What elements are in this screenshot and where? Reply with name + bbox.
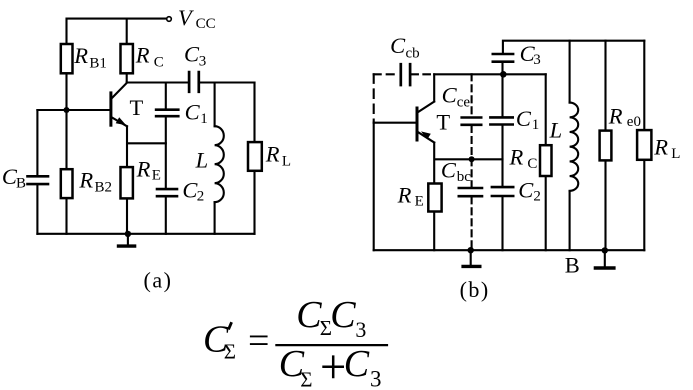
svg-text:1: 1: [200, 111, 208, 127]
svg-text:1: 1: [532, 117, 540, 133]
svg-text:bc: bc: [457, 169, 472, 185]
svg-text:L: L: [671, 146, 680, 162]
svg-text:3: 3: [199, 54, 207, 70]
svg-text:L: L: [195, 147, 209, 172]
svg-text:T: T: [130, 95, 144, 120]
svg-text:B: B: [565, 253, 580, 278]
svg-text:R: R: [397, 183, 412, 208]
svg-text:C: C: [185, 100, 201, 125]
svg-text:R: R: [73, 43, 88, 68]
svg-text:C: C: [516, 106, 532, 131]
svg-text:e0: e0: [627, 114, 641, 130]
svg-text:CC: CC: [196, 16, 216, 32]
svg-text:E: E: [415, 193, 424, 209]
svg-text:=: =: [248, 320, 269, 362]
svg-text:L: L: [282, 154, 291, 170]
svg-text:L: L: [549, 118, 563, 143]
svg-text:C: C: [154, 55, 164, 71]
svg-text:3: 3: [370, 367, 382, 390]
svg-text:B: B: [16, 175, 26, 191]
svg-text:C: C: [184, 42, 200, 67]
svg-text:C: C: [296, 294, 322, 336]
svg-text:Σ: Σ: [224, 340, 236, 364]
svg-text:B1: B1: [89, 55, 107, 71]
svg-text:C: C: [344, 343, 370, 385]
svg-text:Σ: Σ: [300, 367, 312, 390]
svg-text:R: R: [135, 43, 150, 68]
svg-text:R: R: [265, 142, 280, 167]
svg-text:3: 3: [533, 52, 541, 68]
svg-text:C: C: [390, 33, 406, 58]
svg-text:(a): (a): [144, 267, 173, 292]
svg-text:B2: B2: [95, 179, 113, 195]
svg-text:C: C: [330, 294, 356, 336]
svg-text:3: 3: [355, 317, 366, 342]
svg-text:cb: cb: [406, 46, 420, 62]
svg-text:R: R: [653, 134, 668, 159]
svg-text:2: 2: [533, 189, 541, 205]
svg-text:T: T: [436, 109, 450, 134]
svg-text:C: C: [442, 82, 458, 107]
svg-text:R: R: [136, 157, 151, 182]
svg-text:R: R: [608, 103, 623, 128]
svg-text:(b): (b): [460, 277, 490, 302]
svg-text:C: C: [518, 178, 534, 203]
svg-text:ce: ce: [457, 95, 471, 111]
svg-text:C: C: [441, 157, 457, 182]
svg-text:R: R: [78, 168, 93, 193]
svg-text:C: C: [527, 156, 537, 172]
svg-text:R: R: [509, 144, 524, 169]
svg-text:2: 2: [197, 189, 205, 205]
svg-text:E: E: [152, 167, 161, 183]
svg-text:V: V: [178, 5, 194, 30]
